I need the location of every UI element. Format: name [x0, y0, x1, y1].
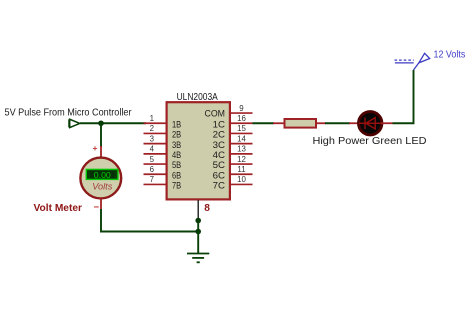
node junction A [98, 120, 104, 126]
wire pin8 to ground [197, 221, 199, 254]
svg-text:8: 8 [204, 203, 210, 214]
volt meter display inner bezel [90, 171, 115, 178]
svg-text:12: 12 [237, 155, 246, 164]
node junction C [195, 229, 201, 235]
svg-text:7C: 7C [213, 181, 226, 191]
pin 11 line [230, 173, 253, 175]
pin 4 line [144, 153, 168, 155]
svg-text:11: 11 [237, 165, 245, 174]
svg-text:13: 13 [237, 145, 246, 154]
svg-text:6C: 6C [213, 170, 226, 180]
wire meter to ground net [101, 209, 198, 232]
pin 2 line [144, 132, 168, 134]
meter top pin [100, 146, 102, 159]
pin 6 line [144, 173, 168, 175]
svg-text:0.00: 0.00 [94, 171, 111, 180]
LED D1 right lead [381, 122, 393, 124]
pin 12 line [230, 163, 253, 165]
pin 1 line [144, 122, 168, 124]
wire input net [80, 122, 146, 124]
volt meter body [80, 158, 121, 199]
svg-text:5C: 5C [213, 160, 226, 170]
svg-text:1B: 1B [172, 119, 181, 129]
svg-text:1: 1 [150, 114, 154, 123]
resistor R1 body [285, 119, 317, 128]
LED D1 left lead [349, 122, 359, 124]
svg-text:6: 6 [150, 165, 155, 174]
pin 15 line [230, 132, 253, 134]
svg-text:12 Volts: 12 Volts [434, 50, 466, 61]
pin 5 line [144, 163, 168, 165]
input terminal [69, 119, 80, 127]
svg-text:2: 2 [150, 124, 154, 133]
svg-text:16: 16 [237, 114, 246, 123]
svg-text:3B: 3B [172, 140, 181, 150]
svg-text:10: 10 [237, 175, 246, 184]
svg-text:2C: 2C [213, 130, 226, 140]
wire resistor to LED [325, 122, 350, 124]
pin 9 line [230, 112, 253, 114]
svg-text:Volts: Volts [92, 181, 112, 191]
node junction B [195, 218, 201, 224]
svg-text:+: + [93, 143, 98, 153]
svg-text:4C: 4C [213, 150, 226, 160]
pin 7 line [144, 183, 168, 185]
svg-text:−: − [94, 202, 100, 213]
LED D1 diode symbol [359, 117, 382, 129]
pin 8 line [197, 200, 199, 221]
svg-text:4: 4 [150, 145, 155, 154]
pin 16 line [230, 122, 253, 124]
svg-text:9: 9 [239, 104, 244, 113]
svg-text:ULN2003A: ULN2003A [177, 92, 219, 103]
svg-text:Volt Meter: Volt Meter [34, 203, 83, 214]
svg-text:14: 14 [237, 134, 246, 143]
svg-text:7B: 7B [172, 181, 181, 191]
ground [187, 254, 209, 263]
svg-text:6B: 6B [172, 170, 181, 180]
pin 14 line [230, 143, 253, 145]
power terminal 12V [395, 53, 430, 70]
LED D1 body [359, 112, 382, 135]
svg-text:5: 5 [150, 155, 155, 164]
svg-text:4B: 4B [172, 150, 181, 160]
svg-text:2B: 2B [172, 130, 181, 140]
svg-text:3C: 3C [213, 140, 226, 150]
resistor R1 right lead [316, 122, 326, 124]
IC U1 ULN2003A body [167, 102, 230, 199]
wire junction to meter [100, 123, 102, 147]
wire pin16 to resistor [253, 122, 275, 124]
pin 13 line [230, 153, 253, 155]
volt meter display [86, 169, 118, 179]
svg-text:COM: COM [205, 108, 226, 118]
resistor R1 left lead [273, 122, 285, 124]
pin 3 line [144, 143, 168, 145]
svg-text:15: 15 [237, 124, 246, 133]
svg-text:5V Pulse From Micro Controller: 5V Pulse From Micro Controller [5, 106, 132, 118]
svg-text:5B: 5B [172, 160, 181, 170]
svg-text:3: 3 [150, 134, 155, 143]
meter bottom pin [100, 198, 102, 210]
svg-text:7: 7 [150, 175, 154, 184]
pin 10 line [230, 183, 253, 185]
svg-text:High Power Green LED: High Power Green LED [313, 135, 427, 147]
wire LED to 12V terminal [393, 70, 414, 123]
svg-text:1C: 1C [213, 119, 226, 129]
